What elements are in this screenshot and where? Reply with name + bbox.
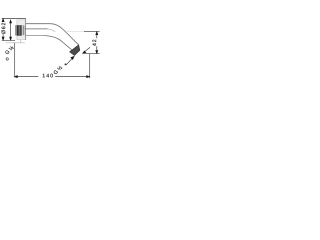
right dim bottom tick: [82, 53, 99, 55]
stub below flange: [20, 40, 22, 43]
right dim top tick: [67, 31, 84, 33]
nut cone at outlet: [69, 45, 80, 56]
flange body highlight: [19, 26, 21, 36]
dimension 140 line: [14, 76, 89, 78]
label 140: [43, 74, 53, 78]
flange rim band: [23, 25, 25, 35]
right dimension line vertical: [96, 32, 98, 54]
extension line left vertical: [14, 43, 16, 78]
label 42 rotated: [92, 40, 96, 46]
pipe top contour: [26, 24, 79, 45]
label G half left rotated 45: [5, 45, 14, 54]
pipe bottom contour: [26, 35, 44, 37]
tip leader diagonal arrow: [83, 47, 90, 53]
flange face line: [25, 19, 27, 41]
flange rim light band: [24, 25, 25, 35]
thread mark superscript: [65, 64, 67, 66]
label diameter 62 rotated: [1, 23, 5, 34]
extension line right vertical from tip: [89, 54, 91, 79]
flange outer wings: [17, 20, 26, 40]
dimension line 2 left: [10, 20, 12, 40]
pipe middle line: [25, 28, 48, 30]
dimension line 1 left: [2, 19, 4, 40]
bottom tick: [2, 39, 15, 41]
leader arrow to nut G half right: [66, 56, 74, 65]
small ring mark left label: [6, 58, 8, 60]
extension tick top flange diameter: [2, 19, 26, 43]
wall stub column: [15, 25, 17, 35]
label G half right rotated 45: [53, 65, 62, 74]
flange dark body: [17, 25, 22, 36]
lower faint tick: [6, 42, 25, 44]
